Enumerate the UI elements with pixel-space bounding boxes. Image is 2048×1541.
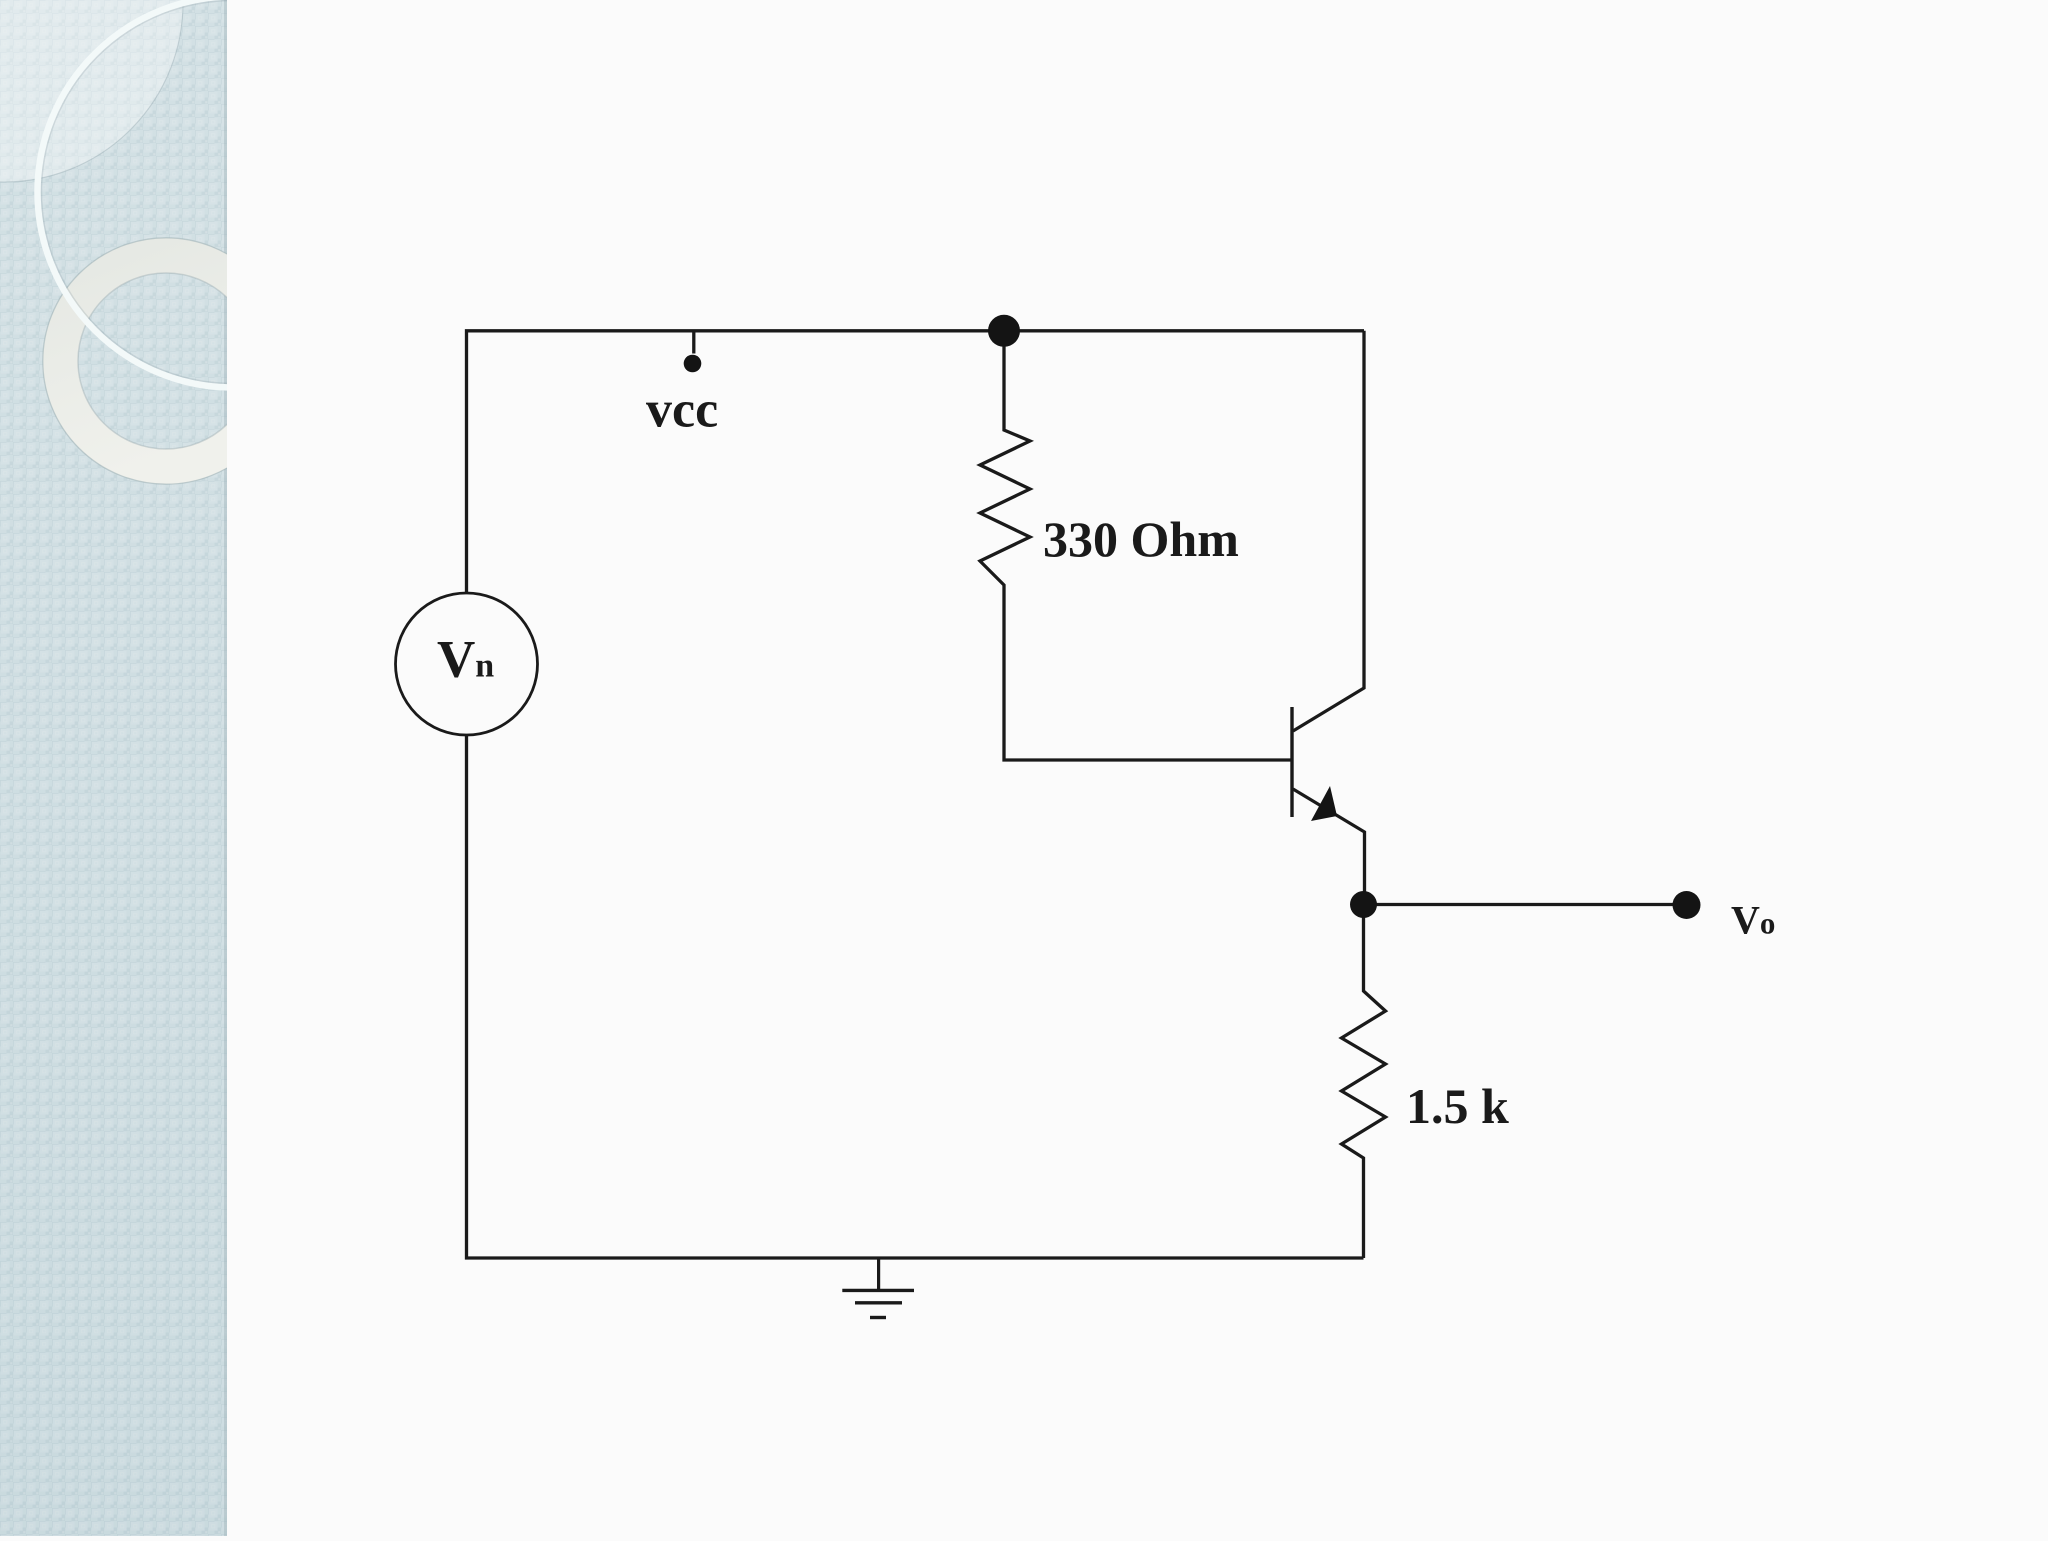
svg-text:1.5 k: 1.5 k: [1406, 1078, 1509, 1134]
svg-text:330 Ohm: 330 Ohm: [1043, 511, 1239, 567]
svg-text:vcc: vcc: [646, 382, 718, 439]
